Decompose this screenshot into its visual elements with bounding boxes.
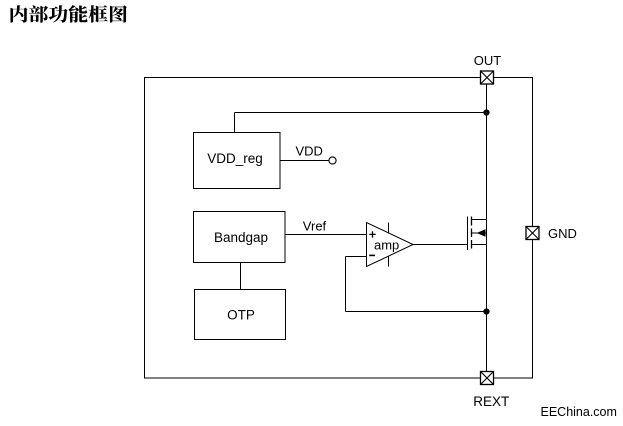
pin GND symbol: [526, 227, 539, 240]
wire op-amp output to gate: [413, 244, 468, 246]
wire Bandgap to OTP: [240, 263, 242, 290]
junction dot top: [483, 109, 489, 115]
wire op-amp minus input: [346, 256, 367, 258]
svg-text:VDD: VDD: [296, 144, 323, 159]
junction dot bottom: [483, 308, 489, 314]
wire VDD_reg top to bus: [234, 113, 236, 133]
svg-text:amp: amp: [374, 238, 399, 253]
wire top horizontal to OUT node: [235, 112, 487, 114]
op-amp minus sign: [369, 254, 375, 256]
svg-text:REXT: REXT: [473, 394, 509, 409]
op-amp top power tick: [388, 223, 390, 233]
block Bandgap: [194, 212, 286, 263]
svg-text:EEChina.com: EEChina.com: [541, 405, 617, 419]
VDD terminal circle: [329, 157, 336, 164]
pin REXT symbol: [481, 372, 494, 385]
op-amp U1: [367, 223, 414, 267]
transistor M1 drain bar: [472, 219, 488, 221]
svg-text:Vref: Vref: [303, 219, 327, 234]
svg-text:OTP: OTP: [227, 308, 255, 323]
svg-text:Bandgap: Bandgap: [214, 230, 268, 245]
svg-text:GND: GND: [548, 226, 577, 241]
chip outline: [145, 78, 533, 379]
wire feedback horizontal to source node: [346, 311, 487, 313]
svg-text:VDD_reg: VDD_reg: [207, 151, 263, 166]
transistor M1 body arrow: [477, 229, 486, 237]
transistor M1 source bar: [472, 244, 488, 246]
title 内部功能框图: [10, 5, 126, 23]
pin OUT symbol: [481, 71, 494, 84]
svg-text:OUT: OUT: [474, 53, 502, 68]
wire feedback vertical: [345, 257, 347, 312]
transistor M1 gate line: [467, 217, 469, 251]
op-amp plus sign: [369, 231, 375, 237]
block OTP: [195, 290, 286, 340]
wire VDD_reg to VDD terminal: [280, 160, 329, 162]
block VDD_reg: [194, 133, 281, 189]
wire Bandgap to op-amp + input: [285, 234, 367, 236]
transistor M1 body bar: [472, 232, 488, 234]
transistor M1 channel segments: [471, 217, 473, 249]
op-amp bottom power tick: [388, 256, 390, 266]
wire main vertical OUT to REXT: [486, 84, 488, 372]
